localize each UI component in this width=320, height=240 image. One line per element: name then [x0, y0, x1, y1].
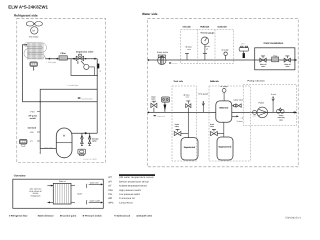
svg-text:Overview: Overview [14, 174, 27, 177]
svg-text:valve: valve [92, 140, 97, 143]
svg-text:Safety valve: Safety valve [233, 99, 243, 102]
svg-text:◌ PSH: ◌ PSH [29, 110, 35, 113]
svg-text:air purge: air purge [220, 85, 227, 88]
svg-text:inlet: inlet [253, 115, 257, 118]
svg-text:◌ PSL: ◌ PSL [29, 131, 34, 134]
svg-text:Ambient temperature sensor: Ambient temperature sensor [119, 185, 147, 188]
svg-text:Thermo gauge: Thermo gauge [200, 32, 215, 35]
svg-text:HW water temperature sensor: HW water temperature sensor [119, 176, 154, 179]
svg-text:← Gas pipe: ← Gas pipe [46, 61, 57, 64]
svg-text:Water tank: Water tank [219, 107, 229, 110]
svg-text:Solenoid: Solenoid [28, 126, 37, 129]
svg-text:Low pressure switch: Low pressure switch [119, 193, 141, 196]
svg-text:valve: valve [210, 125, 214, 128]
svg-text:Pump: Pump [259, 101, 265, 104]
svg-text:← Gas pipe: ← Gas pipe [42, 147, 53, 150]
svg-text:Temp gauge: Temp gauge [198, 92, 208, 95]
svg-text:Refrigerants: Refrigerants [31, 195, 41, 198]
svg-text:Fan motor: Fan motor [29, 35, 39, 38]
svg-text:PSL: PSL [108, 193, 113, 196]
svg-text:valve: valve [285, 65, 289, 68]
svg-text:Filter: Filter [61, 52, 66, 55]
svg-text:Inlet side: Inlet side [183, 26, 192, 29]
svg-text:M: M [33, 30, 35, 33]
svg-text:vent: vent [186, 96, 190, 99]
svg-text:Expansion tank: Expansion tank [184, 146, 196, 149]
svg-text:Outlet side: Outlet side [218, 26, 228, 29]
svg-text:Plate hx: Plate hx [59, 180, 66, 183]
svg-text:Expansion tank: Expansion tank [219, 146, 233, 149]
svg-text:WR: WR [108, 197, 112, 200]
svg-text:valve: valve [279, 118, 283, 121]
svg-text:valve: valve [151, 98, 155, 101]
svg-text:M: M [63, 135, 65, 138]
svg-text:WT: WT [108, 180, 112, 183]
svg-text:From unit: From unit [157, 115, 165, 118]
svg-text:Crankcase htr: Crankcase htr [119, 197, 135, 200]
svg-text:Water side: Water side [142, 12, 158, 16]
svg-text:← Liquid pipe: ← Liquid pipe [66, 84, 79, 87]
svg-text:Compressor: Compressor [119, 201, 133, 204]
svg-text:Expansion valve: Expansion valve [76, 50, 94, 53]
svg-text:vent: vent [187, 48, 191, 51]
svg-text:PSH: PSH [108, 189, 113, 192]
svg-text:Pump motor: Pump motor [157, 51, 169, 54]
svg-text:Water: Water [77, 193, 82, 196]
svg-text:Suction pipe: Suction pipe [81, 97, 93, 100]
svg-text:▸ Refrigerant flow: ▸ Refrigerant flow [8, 215, 28, 218]
svg-text:switch: switch [30, 117, 37, 120]
svg-text:⊕ Control point: ⊕ Control point [60, 215, 76, 218]
svg-text:ELW A-46S: ELW A-46S [84, 158, 98, 161]
svg-text:Refrigerant side: Refrigerant side [14, 14, 38, 18]
svg-text:Tank side: Tank side [173, 80, 183, 83]
svg-text:→ 4b: → 4b [239, 116, 243, 119]
svg-text:Field installation: Field installation [264, 42, 284, 45]
svg-text:To drain: To drain [237, 120, 243, 123]
svg-text:Pump section: Pump section [248, 80, 266, 83]
svg-text:Defrost temperature sensor: Defrost temperature sensor [119, 180, 149, 183]
svg-text:→ Water direction: → Water direction [35, 215, 54, 218]
svg-text:Buffer side: Buffer side [210, 80, 220, 83]
svg-text:◁ Shutoff valve: ◁ Shutoff valve [135, 215, 153, 218]
svg-text:valve: valve [175, 125, 179, 128]
svg-text:valve: valve [261, 65, 265, 68]
svg-text:PCB inside: PCB inside [200, 26, 210, 29]
svg-text:High pressure switch: High pressure switch [119, 189, 142, 192]
svg-text:To unit: To unit [271, 93, 277, 96]
svg-text:✕ Solenoid coil: ✕ Solenoid coil [114, 215, 130, 218]
svg-text:ELW A*S-24K8ZW1: ELW A*S-24K8ZW1 [8, 4, 48, 9]
svg-text:ENV06251-1: ENV06251-1 [286, 216, 303, 219]
svg-text:WPC: WPC [108, 201, 114, 204]
svg-text:⊖ Pressure switch: ⊖ Pressure switch [83, 215, 103, 218]
svg-text:WT: WT [108, 176, 112, 179]
svg-text:oil purge: oil purge [221, 48, 228, 51]
svg-text:Water outlet: Water outlet [90, 200, 101, 203]
